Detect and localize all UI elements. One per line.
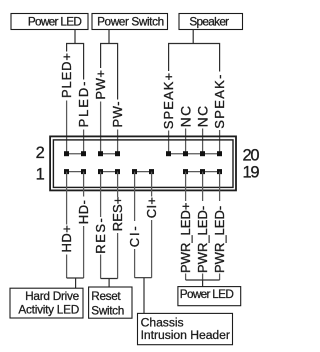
svg-text:PWR_LED-: PWR_LED- [195,206,210,273]
bracket Chassis Intrusion (pins 9,11) [135,277,152,279]
box Hard Drive Activity LED [10,288,83,318]
pin 3 [81,169,86,174]
bracket Power LED bottom (pins 15,17,19) [186,279,220,281]
wire RES- to bracket [100,255,102,279]
box Speaker (top) [179,14,243,30]
pin 20 [217,151,222,156]
wire PLED+ to pin 2 [66,101,68,154]
svg-text:20: 20 [243,146,260,164]
wire stub to Hard Drive Activity LED box [75,278,77,288]
pin 2 [64,151,69,156]
svg-text:Intrusion Header: Intrusion Header [141,328,230,342]
connector outer outline [50,136,236,190]
connector inner outline [53,140,233,188]
svg-text:CI+: CI+ [144,197,159,219]
pin 19 [217,169,222,174]
wire PWR_LED- to bracket [219,274,221,281]
wire pin 9 down [134,172,136,221]
pin 5 [98,169,103,174]
pin 14 [166,151,171,156]
bracket Power Switch (pins 6,8) [101,44,118,100]
wire CI+ to bracket [151,220,153,278]
bracket Power LED (pins 2,4) [67,44,84,80]
pin link top row pins 6-8 [101,153,118,155]
wire stub to Chassis Intrusion box [143,278,145,314]
pin 15 [183,169,188,174]
svg-text:Speaker: Speaker [189,14,229,28]
bracket Speaker (pins 14,20) [169,44,220,72]
wire PW- to pin 8 [117,130,119,154]
wire pin 15 down [185,172,187,201]
pin link bottom row pins 15-19 [186,171,220,173]
pin link bottom row pins 1-3 [67,171,84,173]
wire PLED- to pin 4 [83,130,85,154]
pin 9 [132,169,137,174]
box Chassis Intrusion Header [138,313,233,344]
wire PWR_LED+ to bracket [185,274,187,281]
box Reset Switch [89,287,132,318]
wire pin 19 down [219,172,221,201]
svg-text:PW+: PW+ [93,70,108,100]
wire RES+ to bracket [117,233,119,279]
svg-text:HD+: HD+ [59,225,74,253]
svg-text:Switch: Switch [91,303,124,317]
wire stub Power LED box to bracket [74,30,76,44]
pin 7 [115,169,120,174]
wire stub Speaker box to bracket [192,30,194,44]
wire HD+ to bracket [66,255,68,279]
wire stub to Reset Switch box [108,279,110,288]
svg-text:1: 1 [36,165,45,183]
svg-text:PWR_LED-: PWR_LED- [212,206,227,273]
wire CI- to bracket [134,249,136,278]
wire PWR_LED- to bracket [202,274,204,281]
pin link bottom row pins 9-11 [135,171,152,173]
svg-text:HD-: HD- [76,200,91,225]
bracket Reset Switch (pins 5,7) [101,278,118,280]
svg-text:RES-: RES- [93,217,108,254]
wire pin 17 down [202,172,204,201]
svg-text:Power LED: Power LED [28,14,82,28]
wire pin 11 down [151,172,153,197]
pin 6 [98,151,103,156]
wire pin 3 down [83,172,85,197]
svg-text:Power Switch: Power Switch [97,14,164,28]
svg-text:SPEAK-: SPEAK- [212,73,227,128]
wire HD- to bracket [83,226,85,278]
pin link top row pins 14-20 [169,153,220,155]
svg-text:Hard Drive: Hard Drive [25,289,80,303]
wire SPEAK- to pin 20 [219,130,221,154]
pin link top row pins 2-4 [67,153,84,155]
pin 1 [64,169,69,174]
svg-text:Power LED: Power LED [180,287,234,301]
box Power LED (bottom) [178,287,241,306]
svg-text:SPEAK+: SPEAK+ [161,72,176,130]
svg-text:PLED-: PLED- [76,80,91,128]
svg-text:Activity LED: Activity LED [18,303,79,317]
svg-text:CI-: CI- [127,224,142,247]
svg-text:PLED+: PLED+ [59,52,74,98]
wire PW+ to pin 6 [100,102,102,154]
wire NC to pin 18 [202,129,204,154]
pin 8 [115,151,120,156]
wire stub to Power LED bottom box [202,280,204,287]
svg-text:2: 2 [36,144,45,162]
svg-text:PWR_LED+: PWR_LED+ [178,203,193,273]
bracket Hard Drive Activity LED (pins 1,3) [67,277,84,279]
wire SPEAK+ to pin 14 [168,131,170,154]
wire pin 5 down [100,172,102,217]
svg-text:NC: NC [178,105,193,128]
wire stub Power Switch box to bracket [108,30,110,44]
wire NC to pin 16 [185,129,187,154]
svg-text:NC: NC [195,105,210,128]
pin 16 [183,151,188,156]
wire pin 7 down [117,172,119,197]
svg-text:PW-: PW- [110,101,125,128]
svg-text:RES+: RES+ [110,197,125,232]
svg-text:19: 19 [243,163,260,181]
svg-text:Reset: Reset [91,289,121,303]
pin 4 [81,151,86,156]
pin 17 [200,169,205,174]
box Power LED (top) [11,14,88,30]
wire pin 1 down [66,172,68,225]
pin link bottom row pins 5-7 [101,171,118,173]
box Power Switch (top) [92,14,168,30]
pin 18 [200,151,205,156]
pin 11 [149,169,154,174]
